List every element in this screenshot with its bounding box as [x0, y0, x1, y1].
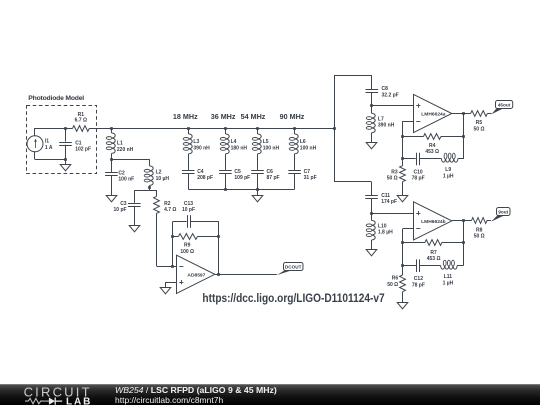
wire trunk up — [334, 75, 336, 128]
capacitor C13 — [187, 215, 189, 228]
resistor R4 — [424, 134, 441, 140]
wire — [34, 128, 36, 136]
svg-text:50 Ω: 50 Ω — [474, 126, 485, 132]
svg-text:DCOUT: DCOUT — [285, 264, 302, 269]
wire — [257, 128, 259, 134]
ground — [366, 143, 377, 149]
node — [110, 158, 113, 161]
node — [462, 112, 465, 115]
svg-text:453 Ω: 453 Ω — [427, 256, 441, 262]
wire — [441, 136, 463, 138]
wire — [371, 182, 373, 195]
inductor L7 — [372, 113, 376, 133]
wire — [111, 128, 113, 133]
svg-text:390 nH: 390 nH — [193, 145, 210, 151]
node — [217, 235, 220, 238]
wire — [402, 121, 404, 159]
svg-text:R8: R8 — [476, 227, 483, 233]
wire — [402, 121, 413, 123]
capacitor C12 — [416, 259, 418, 272]
wire — [402, 229, 404, 266]
current source I1 — [27, 136, 43, 152]
svg-text:L10: L10 — [378, 223, 387, 229]
wire — [402, 158, 415, 160]
capacitor C5 — [219, 170, 232, 172]
node — [224, 188, 227, 191]
svg-text:100 nF: 100 nF — [118, 177, 134, 183]
node — [401, 241, 404, 244]
svg-text:L6: L6 — [300, 139, 306, 145]
svg-text:LMH6624a: LMH6624a — [421, 112, 445, 118]
wire — [65, 145, 67, 160]
wire — [257, 154, 259, 170]
inductor L9 — [441, 159, 457, 163]
svg-text:C13: C13 — [184, 201, 193, 207]
svg-text:6.7 Ω: 6.7 Ω — [75, 118, 87, 124]
svg-text:L4: L4 — [231, 139, 237, 145]
wire — [463, 114, 465, 160]
wire — [452, 220, 463, 222]
wire — [111, 175, 113, 196]
svg-text:C11: C11 — [381, 193, 390, 199]
svg-text:180 nH: 180 nH — [231, 145, 248, 151]
wire — [35, 159, 66, 161]
wire — [172, 221, 174, 266]
svg-text:10 pF: 10 pF — [114, 207, 127, 213]
ground — [366, 250, 377, 256]
ground — [397, 196, 408, 202]
wire — [371, 198, 373, 213]
svg-text:L2: L2 — [156, 170, 162, 176]
svg-text:102 pF: 102 pF — [75, 147, 91, 153]
wire — [173, 221, 187, 223]
svg-text:100 nH: 100 nH — [300, 145, 317, 151]
wire — [218, 221, 220, 274]
wire — [294, 128, 296, 134]
ground — [160, 288, 171, 294]
node — [462, 241, 465, 244]
wire — [371, 133, 373, 143]
wire — [294, 154, 296, 170]
node — [333, 127, 336, 130]
node — [256, 127, 259, 130]
node — [110, 127, 113, 130]
inductor L2 — [150, 166, 154, 186]
svg-text:C8: C8 — [382, 86, 389, 92]
resistor R5 — [471, 111, 488, 117]
resistor R7 — [425, 240, 442, 246]
svg-text:50 Ω: 50 Ω — [387, 282, 398, 288]
wire — [402, 292, 404, 303]
wire — [173, 236, 179, 238]
wire — [402, 182, 404, 196]
svg-text:1 A: 1 A — [45, 145, 53, 151]
svg-text:https://dcc.ligo.org/LIGO-D110: https://dcc.ligo.org/LIGO-D1101124-v7 — [202, 291, 384, 305]
op-amp U3 AD8597 — [177, 255, 215, 293]
wire — [452, 113, 463, 115]
svg-text:R5: R5 — [476, 120, 483, 126]
wire — [188, 128, 190, 134]
node — [293, 127, 296, 130]
svg-text:C12: C12 — [414, 276, 423, 282]
photodiode model dashed box — [27, 106, 97, 174]
svg-text:100 Ω: 100 Ω — [180, 249, 194, 255]
svg-text:C1: C1 — [75, 140, 82, 146]
svg-text:L11: L11 — [444, 274, 453, 280]
svg-text:32.2 pF: 32.2 pF — [382, 92, 399, 98]
resistor R6 — [400, 275, 406, 292]
svg-text:R9: R9 — [184, 243, 191, 249]
svg-text:C10: C10 — [414, 170, 423, 176]
node — [401, 264, 404, 267]
wire — [111, 153, 113, 159]
inductor L1 — [112, 133, 116, 154]
wire — [257, 189, 259, 196]
inductor L6 — [295, 134, 299, 154]
svg-text:Photodiode Model: Photodiode Model — [28, 95, 84, 102]
node — [171, 235, 174, 238]
svg-text:L9: L9 — [445, 167, 451, 173]
svg-text:220 nH: 220 nH — [117, 147, 134, 153]
wire — [65, 160, 67, 165]
svg-text:10 µH: 10 µH — [156, 176, 170, 182]
flag 9out — [491, 216, 504, 222]
resistor R3 — [400, 166, 406, 182]
node — [148, 186, 151, 189]
ground — [129, 226, 140, 232]
node — [462, 135, 465, 138]
wire — [294, 174, 296, 190]
wire — [334, 181, 372, 183]
svg-text:31 pF: 31 pF — [304, 175, 317, 181]
capacitor C3 — [128, 203, 141, 205]
capacitor C6 — [251, 170, 264, 172]
capacitor C4 — [182, 170, 195, 172]
wire — [225, 154, 227, 170]
inductor L4 — [226, 134, 230, 154]
wire — [134, 190, 136, 203]
wire — [463, 113, 471, 115]
svg-text:L3: L3 — [193, 139, 199, 145]
wire — [371, 75, 373, 89]
svg-text:208 pF: 208 pF — [197, 175, 213, 181]
wire — [111, 159, 149, 161]
node — [256, 188, 259, 191]
capacitor C7 — [288, 170, 301, 172]
svg-text:54 MHz: 54 MHz — [241, 112, 266, 121]
svg-text:78 pF: 78 pF — [412, 282, 425, 288]
svg-text:100 nH: 100 nH — [263, 145, 280, 151]
capacitor C8 — [366, 89, 379, 91]
wire — [463, 220, 471, 222]
capacitor C2 — [105, 172, 118, 174]
capacitor C11 — [365, 195, 378, 197]
svg-text:AD8597: AD8597 — [187, 272, 205, 278]
wire — [371, 213, 373, 220]
svg-text:4.7 Ω: 4.7 Ω — [164, 207, 176, 213]
svg-text:C3: C3 — [120, 201, 127, 207]
wire — [257, 174, 259, 190]
resistor R9 — [178, 234, 197, 240]
wire trunk down — [334, 128, 336, 182]
wire rail — [188, 189, 294, 191]
svg-text:1.8 µH: 1.8 µH — [378, 230, 393, 236]
wire — [403, 265, 416, 267]
wire — [371, 92, 373, 105]
svg-text:90 MHz: 90 MHz — [280, 112, 305, 121]
inductor L3 — [189, 134, 193, 154]
wire bus — [89, 128, 334, 130]
svg-text:C4: C4 — [197, 169, 204, 175]
resistor R8 — [472, 218, 488, 224]
svg-text:174 pF: 174 pF — [381, 199, 397, 205]
svg-text:R7: R7 — [430, 250, 437, 256]
svg-text:I1: I1 — [45, 139, 49, 145]
node — [401, 157, 404, 160]
svg-text:R4: R4 — [429, 143, 436, 149]
node — [187, 127, 190, 130]
wire — [215, 274, 277, 276]
wire — [463, 221, 465, 266]
svg-text:R6: R6 — [392, 276, 399, 282]
resistor R1 — [73, 126, 90, 132]
CircuitLab logo — [0, 385, 110, 406]
op-amp U2 LMH6624b — [414, 202, 452, 240]
wire — [419, 158, 441, 160]
wire — [371, 106, 373, 114]
wire — [166, 282, 177, 284]
svg-text:9out: 9out — [498, 209, 508, 214]
svg-text:78 pF: 78 pF — [412, 176, 425, 182]
svg-text:109 pF: 109 pF — [234, 175, 250, 181]
node — [217, 273, 220, 276]
wire — [420, 265, 441, 267]
svg-text:L1: L1 — [117, 141, 123, 147]
ground — [397, 303, 408, 309]
op-amp U1 LMH6624a — [414, 94, 452, 132]
wire — [402, 266, 404, 275]
node — [370, 212, 373, 215]
svg-text:C6: C6 — [267, 169, 274, 175]
wire — [35, 128, 73, 130]
wire — [403, 242, 425, 244]
svg-text:C2: C2 — [118, 171, 125, 177]
wire — [34, 152, 36, 160]
svg-text:1 µH: 1 µH — [443, 173, 454, 179]
flag 45out — [492, 109, 504, 115]
node — [401, 135, 404, 138]
inductor L10 — [372, 220, 376, 240]
wire — [156, 190, 158, 196]
ground — [106, 196, 117, 202]
capacitor C10 — [416, 153, 418, 166]
wire — [457, 265, 463, 267]
wire — [157, 266, 177, 268]
svg-text:L7: L7 — [378, 116, 384, 122]
node — [370, 104, 373, 107]
wire — [149, 159, 151, 166]
svg-text:LMH6624b: LMH6624b — [421, 219, 445, 225]
capacitor C1 — [59, 142, 72, 144]
wire — [149, 185, 151, 190]
ground — [60, 165, 71, 171]
wire — [225, 174, 227, 190]
wire — [190, 221, 219, 223]
node — [64, 127, 67, 130]
svg-text:87 pF: 87 pF — [267, 175, 280, 181]
svg-text:10 pF: 10 pF — [182, 207, 195, 213]
wire — [372, 213, 414, 215]
svg-text:18 MHz: 18 MHz — [173, 112, 198, 121]
wire — [188, 154, 190, 170]
wire — [402, 136, 423, 138]
wire — [487, 220, 491, 222]
svg-text:390 nH: 390 nH — [378, 123, 395, 129]
wire — [225, 128, 227, 134]
svg-text:1 µH: 1 µH — [443, 280, 454, 286]
wire — [156, 213, 158, 266]
flag DCOUT — [277, 271, 291, 276]
wire — [188, 174, 190, 190]
node — [64, 158, 67, 161]
wire — [487, 113, 491, 115]
svg-text:R3: R3 — [391, 170, 398, 176]
svg-text:C7: C7 — [304, 169, 311, 175]
svg-text:36 MHz: 36 MHz — [211, 112, 236, 121]
ground — [252, 196, 263, 202]
svg-text:R2: R2 — [164, 201, 171, 207]
svg-text:C5: C5 — [234, 169, 241, 175]
wire — [198, 236, 219, 238]
wire — [402, 159, 404, 166]
wire — [458, 158, 463, 160]
svg-text:L5: L5 — [263, 139, 269, 145]
wire — [334, 75, 372, 77]
inductor L5 — [258, 134, 262, 154]
node — [224, 127, 227, 130]
wire — [371, 240, 373, 250]
wire — [134, 206, 136, 225]
svg-text:50 Ω: 50 Ω — [387, 176, 398, 182]
wire — [111, 159, 113, 172]
wire — [165, 282, 167, 288]
node — [462, 219, 465, 222]
svg-text:45out: 45out — [498, 102, 511, 107]
inductor L11 — [441, 266, 458, 270]
footer title text — [115, 385, 277, 405]
svg-text:453 Ω: 453 Ω — [425, 149, 439, 155]
wire — [442, 242, 463, 244]
wire — [403, 228, 414, 230]
resistor R2 — [154, 196, 160, 213]
node — [171, 265, 174, 268]
wire — [134, 190, 157, 192]
wire — [372, 105, 414, 107]
svg-text:50 Ω: 50 Ω — [474, 234, 485, 240]
wire — [65, 128, 67, 142]
